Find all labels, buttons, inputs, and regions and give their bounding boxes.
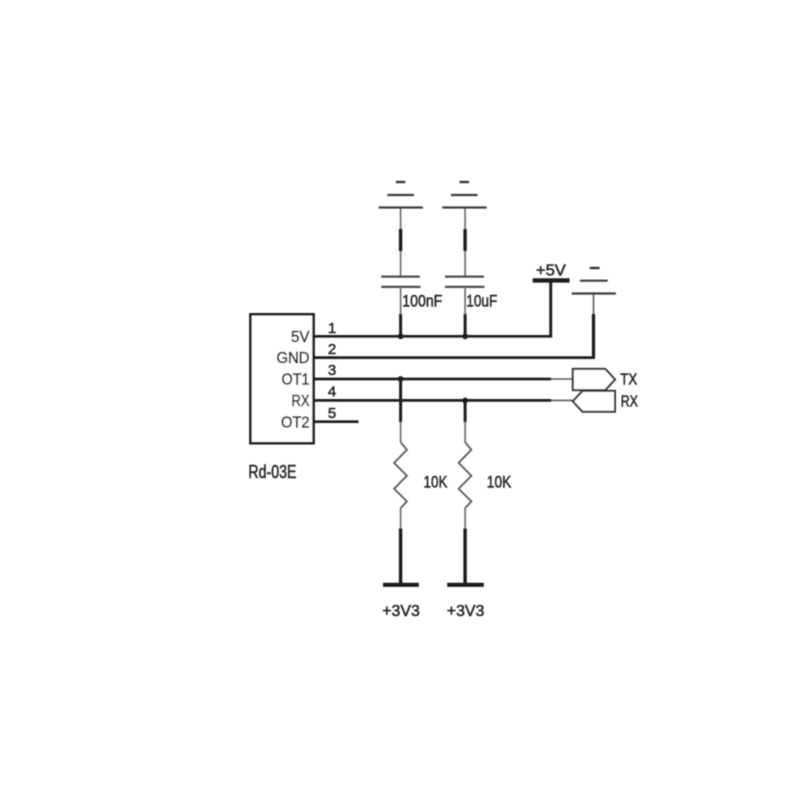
- ground symbol G3 minus mark: [590, 267, 600, 269]
- power +3V3 bar right: [447, 583, 484, 587]
- port TX flag: [573, 369, 615, 390]
- wire pin3 OT1 horizontal thin end: [551, 378, 573, 380]
- svg-text:+3V3: +3V3: [447, 603, 485, 620]
- svg-text:RX: RX: [621, 394, 639, 411]
- node junction RX to R2: [462, 398, 468, 404]
- resistor R1 top lead thick: [399, 379, 402, 422]
- node junction 5V to C1: [398, 333, 404, 339]
- svg-text:1: 1: [328, 320, 336, 337]
- wire GND vertical riser thin upper: [593, 294, 595, 316]
- capacitor C2 upper lead thick segment: [463, 229, 466, 251]
- ground symbol G3 middle line: [580, 280, 608, 282]
- svg-text:+5V: +5V: [536, 263, 566, 280]
- resistor R2 bottom lead thin: [464, 508, 466, 528]
- node junction 5V to C2: [462, 333, 468, 339]
- capacitor C2 upper lead thin: [464, 209, 466, 277]
- svg-text:10uF: 10uF: [466, 292, 497, 310]
- capacitor C2 bottom plate: [445, 286, 485, 288]
- node junction OT1 to R1: [398, 376, 404, 382]
- wire pin5 OT2 stub: [313, 420, 359, 423]
- svg-text:OT1: OT1: [282, 371, 310, 388]
- svg-text:4: 4: [328, 383, 336, 400]
- capacitor C1 bottom plate: [381, 286, 420, 288]
- resistor R2 zigzag body: [459, 442, 472, 508]
- svg-text:2: 2: [328, 341, 336, 358]
- svg-text:RX: RX: [292, 393, 311, 410]
- svg-text:5V: 5V: [291, 329, 310, 346]
- capacitor C1 lower lead thin: [400, 287, 402, 316]
- svg-text:100nF: 100nF: [402, 292, 442, 310]
- resistor R1 bottom lead thick: [399, 529, 402, 585]
- svg-text:GND: GND: [277, 350, 310, 367]
- wire 5V vertical riser: [549, 280, 552, 337]
- wire pin4 RX horizontal thick: [313, 399, 551, 402]
- svg-text:Rd-03E: Rd-03E: [248, 462, 296, 482]
- port RX flag: [573, 391, 615, 412]
- capacitor C2 lower lead thick: [464, 314, 467, 336]
- svg-text:TX: TX: [620, 372, 638, 389]
- ground symbol G1 minus mark: [396, 181, 405, 183]
- power +3V3 bar left: [383, 583, 419, 587]
- capacitor C2 top plate: [445, 275, 484, 277]
- capacitor C1 upper lead thick segment: [399, 229, 402, 251]
- svg-text:OT2: OT2: [281, 415, 310, 432]
- ground symbol G2 long line: [442, 206, 486, 208]
- wire GND vertical riser thick lower: [592, 314, 595, 359]
- svg-text:10K: 10K: [424, 474, 448, 492]
- svg-text:10K: 10K: [487, 474, 512, 492]
- wire pin4 RX horizontal thin end: [551, 399, 573, 401]
- ground symbol G2 minus mark: [460, 181, 469, 183]
- svg-text:+3V3: +3V3: [382, 603, 420, 620]
- ground symbol G3 long line: [572, 292, 616, 294]
- resistor R2 top lead thin: [464, 422, 466, 442]
- resistor R2 top lead thick: [464, 400, 467, 422]
- wire pin1 5V horizontal: [313, 335, 551, 338]
- IC U1 Rd-03E body: [250, 314, 313, 443]
- power +5V bar: [533, 278, 570, 282]
- ground symbol G1 long line: [379, 206, 423, 208]
- ground symbol G2 middle line: [451, 194, 478, 196]
- resistor R2 bottom lead thick: [463, 529, 466, 585]
- wire pin3 OT1 horizontal thick: [313, 378, 551, 381]
- capacitor C1 lower lead thick: [399, 314, 402, 336]
- resistor R1 bottom lead thin: [400, 508, 402, 528]
- svg-text:5: 5: [328, 405, 336, 422]
- svg-text:3: 3: [328, 362, 336, 379]
- wire pin2 GND horizontal: [313, 356, 594, 359]
- capacitor C1 upper lead thin: [400, 209, 402, 277]
- capacitor C1 top plate: [381, 275, 420, 277]
- ground symbol G1 middle line: [387, 194, 414, 196]
- resistor R1 top lead thin: [400, 422, 402, 442]
- resistor R1 zigzag body: [394, 442, 407, 508]
- capacitor C2 lower lead thin: [464, 287, 466, 316]
